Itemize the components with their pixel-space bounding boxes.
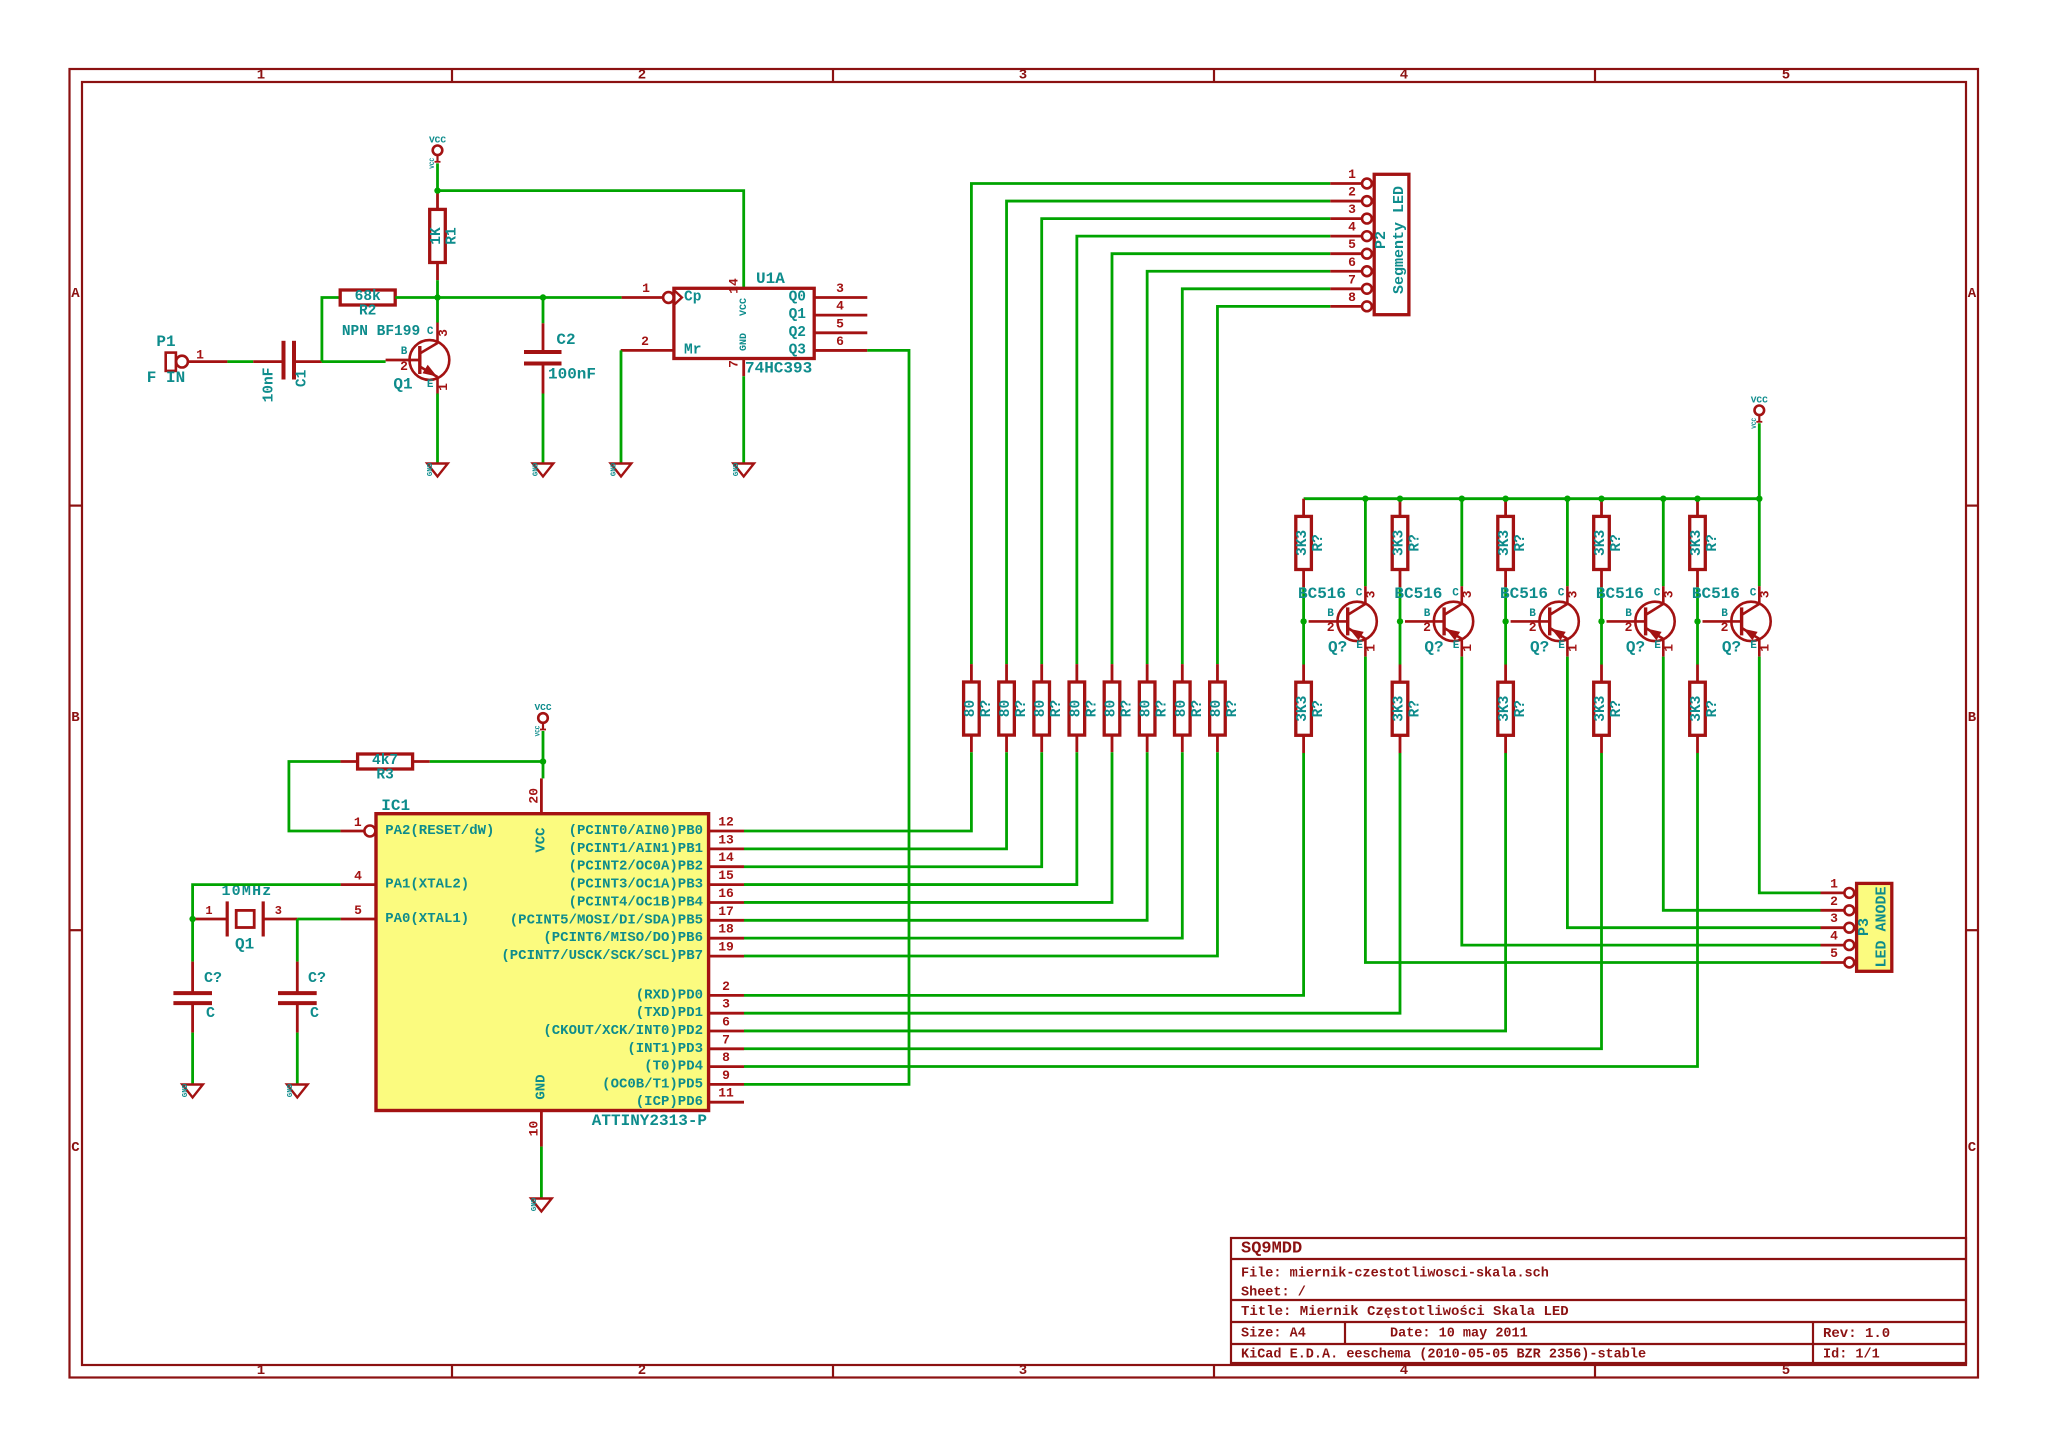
resistor R? column 8 (80) xyxy=(1209,682,1241,735)
svg-text:Id: 1/1: Id: 1/1 xyxy=(1823,1348,1880,1363)
wire lower resistor cell 4 to IC1 PD3 xyxy=(744,753,1602,1049)
svg-text:C: C xyxy=(427,326,434,338)
svg-text:1K: 1K xyxy=(429,227,445,245)
svg-text:(PCINT6/MISO/DO)PB6: (PCINT6/MISO/DO)PB6 xyxy=(543,930,703,946)
svg-text:GND: GND xyxy=(733,462,741,476)
svg-text:C1: C1 xyxy=(295,369,311,387)
svg-text:BC516: BC516 xyxy=(1596,585,1644,603)
wire VCC riser xyxy=(1758,423,1761,498)
svg-text:VCC: VCC xyxy=(535,725,542,736)
wire rail to collector cell 2 xyxy=(1460,499,1463,587)
svg-text:3: 3 xyxy=(1348,202,1356,217)
wire Q1 emitter to ground xyxy=(436,394,439,464)
svg-text:18: 18 xyxy=(718,922,734,937)
resistor R? column 5 (80) xyxy=(1104,682,1136,735)
wire rail to collector cell 5 xyxy=(1758,499,1761,587)
transistor Q? BC516 (PNP darlington) xyxy=(1394,585,1474,657)
svg-text:Segmenty LED: Segmenty LED xyxy=(1391,186,1408,294)
resistor R? column 4 (80) xyxy=(1068,682,1100,735)
wire U1A Mr to ground xyxy=(620,350,623,463)
svg-text:17: 17 xyxy=(718,904,734,919)
svg-text:2: 2 xyxy=(638,1363,646,1379)
IC IC1 ATTINY2313-P xyxy=(340,778,744,1146)
svg-text:GND: GND xyxy=(533,1074,549,1099)
svg-text:PA1(XTAL2): PA1(XTAL2) xyxy=(385,877,469,893)
wire resistor column 1 to IC1 PB0 xyxy=(744,752,971,831)
wire lower resistor cell 5 to IC1 PD4 xyxy=(744,753,1698,1067)
svg-text:5: 5 xyxy=(1348,237,1356,252)
wire base node to lower resistor cell 5 xyxy=(1696,621,1699,664)
svg-text:2: 2 xyxy=(1721,620,1729,635)
svg-text:R?: R? xyxy=(1311,700,1327,717)
wire VCC rail for transistor cells xyxy=(1304,497,1760,500)
capacitor C1 (10nF) xyxy=(253,341,322,403)
wire VCC rail to U1A pin 14 xyxy=(438,191,744,289)
svg-text:3K3: 3K3 xyxy=(1593,696,1609,722)
wire Q1 collector to node xyxy=(436,298,439,323)
svg-text:7: 7 xyxy=(722,1032,730,1047)
svg-text:3: 3 xyxy=(1363,590,1378,598)
wire IC1 PA0 to crystal xyxy=(297,918,340,921)
wire IC1 PA1 to crystal xyxy=(193,885,341,919)
svg-text:2: 2 xyxy=(722,979,730,994)
wire P2 pin 8 to resistor R? column 8 xyxy=(1217,306,1330,664)
svg-text:2: 2 xyxy=(1348,185,1356,200)
svg-text:NPN BF199: NPN BF199 xyxy=(342,324,420,340)
lead base resistor bottom cell 1 xyxy=(1302,570,1305,588)
svg-text:8: 8 xyxy=(1348,290,1356,305)
capacitor C? left (crystal load) xyxy=(173,919,222,1033)
svg-text:4: 4 xyxy=(836,299,844,314)
ground at IC1 pin 10 xyxy=(531,1197,552,1211)
wire right C? to ground xyxy=(296,1033,299,1084)
svg-text:R?: R? xyxy=(1408,700,1424,717)
svg-text:3: 3 xyxy=(1661,590,1676,598)
wire rail to base resistor cell 5 xyxy=(1696,499,1699,517)
svg-text:E: E xyxy=(1558,640,1565,652)
resistor R? base top cell 5 (3K3) xyxy=(1689,516,1721,569)
wire C1 to base node and R2 xyxy=(322,360,386,363)
capacitor C2 (100nF) xyxy=(524,298,596,394)
svg-text:74HC393: 74HC393 xyxy=(745,360,812,378)
crystal Q1 10MHz xyxy=(193,883,297,954)
svg-text:3K3: 3K3 xyxy=(1689,530,1705,556)
lead base resistor bottom cell 2 xyxy=(1399,570,1402,588)
svg-text:2: 2 xyxy=(641,334,649,349)
svg-text:5: 5 xyxy=(1830,946,1838,961)
svg-text:Q1: Q1 xyxy=(393,376,412,394)
svg-text:Title: Miernik Częstotliwości: Title: Miernik Częstotliwości Skala LED xyxy=(1241,1304,1569,1320)
svg-text:U1A: U1A xyxy=(756,270,785,288)
svg-text:2: 2 xyxy=(1529,620,1537,635)
svg-text:C: C xyxy=(310,1005,319,1022)
svg-text:R?: R? xyxy=(1609,700,1625,717)
svg-text:R?: R? xyxy=(1190,700,1206,717)
svg-text:1: 1 xyxy=(1348,167,1356,182)
pin leads of resistor column 3 xyxy=(1040,664,1043,682)
svg-text:Q?: Q? xyxy=(1530,638,1549,656)
svg-text:VCC: VCC xyxy=(429,158,436,169)
svg-text:Cp: Cp xyxy=(684,290,702,306)
transistor Q? BC516 (PNP darlington) xyxy=(1298,585,1378,657)
svg-text:R?: R? xyxy=(1513,534,1529,551)
svg-text:Q1: Q1 xyxy=(789,307,807,323)
resistor R? base lower cell 5 (3K3) xyxy=(1689,682,1721,735)
svg-text:5: 5 xyxy=(354,903,362,918)
svg-text:2: 2 xyxy=(1423,620,1431,635)
resistor R? base lower cell 3 (3K3) xyxy=(1497,682,1529,735)
svg-text:(PCINT4/OC1B)PB4: (PCINT4/OC1B)PB4 xyxy=(569,895,703,911)
resistor R? column 3 (80) xyxy=(1033,682,1065,735)
svg-text:10nF: 10nF xyxy=(261,368,277,403)
svg-text:GND: GND xyxy=(739,333,750,351)
svg-text:Date: 10 may 2011: Date: 10 may 2011 xyxy=(1390,1327,1528,1342)
svg-text:14: 14 xyxy=(718,850,734,865)
wire R3 to IC1 PA2 (reset) xyxy=(289,762,341,832)
VCC power symbol above transistor rail xyxy=(1751,394,1768,428)
svg-text:1: 1 xyxy=(1460,644,1475,652)
svg-text:Q?: Q? xyxy=(1424,638,1443,656)
svg-text:1: 1 xyxy=(1661,644,1676,652)
svg-text:3K3: 3K3 xyxy=(1497,530,1513,556)
lead base resistor bottom cell 4 xyxy=(1600,570,1603,588)
svg-text:12: 12 xyxy=(718,815,734,830)
svg-text:C: C xyxy=(71,1140,80,1156)
svg-text:9: 9 xyxy=(722,1068,730,1083)
svg-text:C: C xyxy=(1750,587,1757,599)
wire resistor column 5 to IC1 PB4 xyxy=(744,752,1112,902)
svg-text:3K3: 3K3 xyxy=(1593,530,1609,556)
ground below right C? xyxy=(287,1083,308,1097)
svg-text:(TXD)PD1: (TXD)PD1 xyxy=(636,1005,703,1021)
wire base node to lower resistor cell 4 xyxy=(1600,621,1603,664)
svg-text:E: E xyxy=(1356,640,1363,652)
svg-text:(OC0B/T1)PD5: (OC0B/T1)PD5 xyxy=(602,1076,703,1092)
svg-text:1: 1 xyxy=(257,1363,265,1379)
wire P2 pin 3 to resistor R? column 3 xyxy=(1042,219,1331,664)
svg-text:F IN: F IN xyxy=(147,369,185,387)
svg-text:C: C xyxy=(1452,587,1459,599)
wire base node to lower resistor cell 3 xyxy=(1504,621,1507,664)
svg-text:Q?: Q? xyxy=(1626,638,1645,656)
wire resistor column 2 to IC1 PB1 xyxy=(744,752,1007,849)
svg-text:P3: P3 xyxy=(1856,918,1873,936)
svg-text:R?: R? xyxy=(1705,700,1721,717)
svg-text:SQ9MDD: SQ9MDD xyxy=(1241,1240,1302,1259)
pin leads of resistor column 5 xyxy=(1111,664,1114,682)
svg-text:C: C xyxy=(1356,587,1363,599)
svg-text:4: 4 xyxy=(1400,68,1408,84)
svg-text:B: B xyxy=(1625,608,1632,620)
svg-text:BC516: BC516 xyxy=(1500,585,1548,603)
wire lower resistor cell 2 to IC1 PD1 xyxy=(744,753,1400,1013)
wire emitter cell 3 to P3 pin 3 xyxy=(1567,657,1820,928)
ground at U1A pin 7 xyxy=(733,462,754,476)
svg-text:Rev: 1.0: Rev: 1.0 xyxy=(1823,1326,1890,1342)
svg-text:14: 14 xyxy=(727,278,742,294)
svg-text:19: 19 xyxy=(718,940,734,955)
svg-text:6: 6 xyxy=(1348,255,1356,270)
svg-text:3K3: 3K3 xyxy=(1295,696,1311,722)
svg-text:R?: R? xyxy=(979,700,995,717)
svg-text:A: A xyxy=(1968,286,1977,302)
resistor R? base lower cell 1 (3K3) xyxy=(1295,682,1327,735)
svg-text:E: E xyxy=(427,379,434,391)
transistor Q? BC516 (PNP darlington) xyxy=(1692,585,1772,657)
wire P2 pin 5 to resistor R? column 5 xyxy=(1112,254,1330,664)
svg-text:R?: R? xyxy=(1513,700,1529,717)
svg-text:R?: R? xyxy=(1311,534,1327,551)
resistor R3 (4k7) xyxy=(358,753,413,784)
resistor R? base lower cell 4 (3K3) xyxy=(1593,682,1625,735)
svg-text:4: 4 xyxy=(1400,1363,1408,1379)
svg-text:1: 1 xyxy=(1565,644,1580,652)
svg-text:3: 3 xyxy=(1757,590,1772,598)
svg-text:3: 3 xyxy=(836,281,844,296)
svg-text:P2: P2 xyxy=(1373,231,1390,249)
svg-text:R?: R? xyxy=(1120,700,1136,717)
svg-text:Q2: Q2 xyxy=(789,325,806,341)
svg-text:80: 80 xyxy=(1104,700,1120,717)
svg-text:5: 5 xyxy=(1782,1363,1790,1379)
svg-text:R?: R? xyxy=(1609,534,1625,551)
svg-text:10: 10 xyxy=(527,1121,542,1137)
wire C2 to ground xyxy=(542,394,545,464)
svg-text:1: 1 xyxy=(436,383,451,391)
svg-text:R?: R? xyxy=(1049,700,1065,717)
svg-text:80: 80 xyxy=(1139,700,1155,717)
svg-text:GND: GND xyxy=(182,1083,190,1097)
wire IC1 GND to ground xyxy=(540,1147,543,1198)
wire lower resistor cell 3 to IC1 PD2 xyxy=(744,753,1506,1031)
svg-text:Q?: Q? xyxy=(1722,638,1741,656)
svg-text:C: C xyxy=(1558,587,1565,599)
svg-text:R?: R? xyxy=(1155,700,1171,717)
svg-text:80: 80 xyxy=(1068,700,1084,717)
resistor R? base top cell 2 (3K3) xyxy=(1392,516,1424,569)
connector P2 Segmenty LED xyxy=(1330,167,1409,315)
svg-text:VCC: VCC xyxy=(533,827,549,853)
svg-text:3: 3 xyxy=(275,904,282,918)
svg-text:GND: GND xyxy=(531,1197,539,1211)
pin leads of resistor column 8 xyxy=(1216,664,1219,682)
svg-text:3: 3 xyxy=(436,329,451,337)
svg-text:C: C xyxy=(1654,587,1661,599)
svg-text:3: 3 xyxy=(1019,1363,1027,1379)
svg-text:1: 1 xyxy=(205,904,212,918)
svg-text:2: 2 xyxy=(1625,620,1633,635)
svg-text:3: 3 xyxy=(1460,590,1475,598)
wire rail to base resistor cell 4 xyxy=(1600,499,1603,517)
transistor Q1 NPN BF199 xyxy=(342,323,451,394)
svg-text:A: A xyxy=(71,286,80,302)
wire emitter cell 1 to P3 pin 5 xyxy=(1365,657,1820,963)
svg-text:R?: R? xyxy=(1084,700,1100,717)
svg-text:BC516: BC516 xyxy=(1298,585,1346,603)
wire P2 pin 6 to resistor R? column 6 xyxy=(1147,271,1330,664)
svg-text:Size: A4: Size: A4 xyxy=(1241,1327,1306,1342)
VCC power symbol above R1 xyxy=(429,134,446,168)
svg-text:4: 4 xyxy=(354,869,362,884)
svg-text:11: 11 xyxy=(718,1086,734,1101)
svg-text:Q0: Q0 xyxy=(789,290,806,306)
svg-text:5: 5 xyxy=(836,316,844,331)
svg-text:R?: R? xyxy=(1225,700,1241,717)
svg-text:B: B xyxy=(1424,608,1431,620)
pin leads of resistor column 4 xyxy=(1075,664,1078,682)
pin leads of resistor column 1 xyxy=(970,664,973,682)
svg-text:VCC: VCC xyxy=(534,702,551,713)
svg-text:3: 3 xyxy=(722,997,730,1012)
transistor Q? BC516 (PNP darlington) xyxy=(1500,585,1580,657)
ground below left C? xyxy=(182,1083,203,1097)
wire R3 leads xyxy=(340,760,357,763)
svg-text:13: 13 xyxy=(718,832,734,847)
svg-text:(INT1)PD3: (INT1)PD3 xyxy=(627,1041,703,1057)
svg-text:E: E xyxy=(1654,640,1661,652)
svg-text:1: 1 xyxy=(642,281,650,296)
svg-text:(PCINT7/USCK/SCK/SCL)PB7: (PCINT7/USCK/SCK/SCL)PB7 xyxy=(501,948,703,964)
wire P2 pin 7 to resistor R? column 7 xyxy=(1182,289,1330,664)
wire P1 to C1 xyxy=(227,360,253,363)
wire VCC node to IC1 pin 20 xyxy=(542,762,545,779)
svg-text:(PCINT5/MOSI/DI/SDA)PB5: (PCINT5/MOSI/DI/SDA)PB5 xyxy=(510,912,703,928)
svg-text:1: 1 xyxy=(257,68,265,84)
svg-text:16: 16 xyxy=(718,886,734,901)
svg-text:Q1: Q1 xyxy=(235,936,254,954)
svg-text:E: E xyxy=(1453,640,1460,652)
svg-text:1: 1 xyxy=(1363,644,1378,652)
svg-text:(CKOUT/XCK/INT0)PD2: (CKOUT/XCK/INT0)PD2 xyxy=(543,1023,703,1039)
resistor R? column 7 (80) xyxy=(1174,682,1206,735)
wire resistor column 6 to IC1 PB5 xyxy=(744,752,1147,920)
svg-text:6: 6 xyxy=(836,334,844,349)
wire R1 bottom to node xyxy=(436,263,439,281)
svg-text:R?: R? xyxy=(1705,534,1721,551)
svg-text:B: B xyxy=(401,346,408,358)
wire emitter cell 2 to P3 pin 4 xyxy=(1462,657,1821,946)
lead base resistor bottom cell 5 xyxy=(1696,570,1699,588)
svg-text:8: 8 xyxy=(722,1050,730,1065)
svg-text:80: 80 xyxy=(963,700,979,717)
wire rail to base resistor cell 3 xyxy=(1504,499,1507,517)
svg-text:Q?: Q? xyxy=(1328,638,1347,656)
svg-text:(PCINT0/AIN0)PB0: (PCINT0/AIN0)PB0 xyxy=(569,823,703,839)
wire U1A Q3 to IC1 PD5 (T1) xyxy=(744,350,909,1084)
svg-text:R1: R1 xyxy=(445,227,461,245)
svg-text:R3: R3 xyxy=(376,768,393,784)
svg-text:Q3: Q3 xyxy=(789,342,806,358)
svg-text:Sheet: /: Sheet: / xyxy=(1241,1286,1306,1301)
svg-text:GND: GND xyxy=(427,462,435,476)
svg-text:1: 1 xyxy=(1830,876,1838,891)
svg-text:PA2(RESET/dW): PA2(RESET/dW) xyxy=(385,823,494,839)
svg-text:C: C xyxy=(1968,1140,1977,1156)
svg-text:GND: GND xyxy=(533,462,541,476)
wire P2 pin 4 to resistor R? column 4 xyxy=(1077,236,1330,664)
svg-text:2: 2 xyxy=(1830,894,1838,909)
svg-text:B: B xyxy=(1327,608,1334,620)
svg-text:KiCad E.D.A. eeschema (2010-0: KiCad E.D.A. eeschema (2010-05-05 BZR 23… xyxy=(1241,1348,1646,1363)
svg-text:4: 4 xyxy=(1830,929,1838,944)
wire P2 pin 2 to resistor R? column 2 xyxy=(1007,201,1331,664)
pin leads of resistor column 7 xyxy=(1181,664,1184,682)
svg-text:R?: R? xyxy=(1014,700,1030,717)
svg-text:C: C xyxy=(206,1005,215,1022)
resistor R? base lower cell 2 (3K3) xyxy=(1392,682,1424,735)
svg-text:2: 2 xyxy=(1327,620,1335,635)
svg-text:80: 80 xyxy=(1209,700,1225,717)
wire base node to lower resistor cell 1 xyxy=(1302,621,1305,664)
connector P3 LED ANODE xyxy=(1821,876,1892,971)
svg-text:(PCINT3/OC1A)PB3: (PCINT3/OC1A)PB3 xyxy=(569,877,703,893)
pin leads of resistor column 6 xyxy=(1146,664,1149,682)
IC U1A 74HC393 counter xyxy=(621,270,868,378)
capacitor C? right (crystal load) xyxy=(278,919,326,1033)
svg-text:2: 2 xyxy=(638,68,646,84)
wire left C? to ground xyxy=(191,1033,194,1084)
svg-text:3: 3 xyxy=(1019,68,1027,84)
wire rail to collector cell 1 xyxy=(1364,499,1367,587)
wire resistor column 3 to IC1 PB2 xyxy=(744,752,1042,867)
wire rail to base resistor cell 1 xyxy=(1302,499,1305,517)
svg-text:7: 7 xyxy=(1348,272,1356,287)
svg-text:3K3: 3K3 xyxy=(1497,696,1513,722)
wire base node to lower resistor cell 2 xyxy=(1399,621,1402,664)
svg-text:(ICP)PD6: (ICP)PD6 xyxy=(636,1094,703,1110)
ground at U1A Mr xyxy=(611,462,632,476)
svg-text:C2: C2 xyxy=(556,331,575,349)
svg-text:P1: P1 xyxy=(156,333,175,351)
wire U1A GND pin to ground xyxy=(742,376,745,463)
svg-text:PA0(XTAL1): PA0(XTAL1) xyxy=(385,911,469,927)
svg-text:5: 5 xyxy=(1782,68,1790,84)
svg-text:E: E xyxy=(1750,640,1757,652)
wire R2 to collector node xyxy=(395,296,437,299)
svg-text:3: 3 xyxy=(1830,911,1838,926)
svg-text:7: 7 xyxy=(727,360,742,368)
svg-text:GND: GND xyxy=(287,1083,295,1097)
svg-text:BC516: BC516 xyxy=(1692,585,1740,603)
title block xyxy=(1231,1238,1966,1363)
svg-text:80: 80 xyxy=(998,700,1014,717)
svg-text:(PCINT2/OC0A)PB2: (PCINT2/OC0A)PB2 xyxy=(569,859,703,875)
svg-text:15: 15 xyxy=(718,868,734,883)
connector P1 (F IN) xyxy=(147,333,228,387)
svg-text:3: 3 xyxy=(1565,590,1580,598)
ground at Q1 emitter xyxy=(427,462,448,476)
resistor R? column 1 (80) xyxy=(963,682,995,735)
wire resistor column 7 to IC1 PB6 xyxy=(744,752,1182,938)
svg-text:VCC: VCC xyxy=(1751,418,1758,429)
svg-text:(PCINT1/AIN1)PB1: (PCINT1/AIN1)PB1 xyxy=(569,841,703,857)
wire R3 to VCC node xyxy=(430,760,543,763)
svg-text:C?: C? xyxy=(308,970,326,987)
transistor Q? BC516 (PNP darlington) xyxy=(1596,585,1676,657)
svg-text:B: B xyxy=(71,710,80,726)
resistor R? base top cell 3 (3K3) xyxy=(1497,516,1529,569)
svg-text:6: 6 xyxy=(722,1015,730,1030)
svg-text:VCC: VCC xyxy=(739,298,750,316)
wire rail to collector cell 3 xyxy=(1566,499,1569,587)
svg-text:80: 80 xyxy=(1174,700,1190,717)
svg-text:1: 1 xyxy=(354,815,362,830)
svg-text:(T0)PD4: (T0)PD4 xyxy=(644,1059,703,1075)
resistor R1 (1K) xyxy=(429,209,461,262)
wire emitter cell 4 to P3 pin 2 xyxy=(1663,657,1820,911)
svg-text:B: B xyxy=(1721,608,1728,620)
wire P2 pin 1 to resistor R? column 1 xyxy=(971,184,1330,665)
